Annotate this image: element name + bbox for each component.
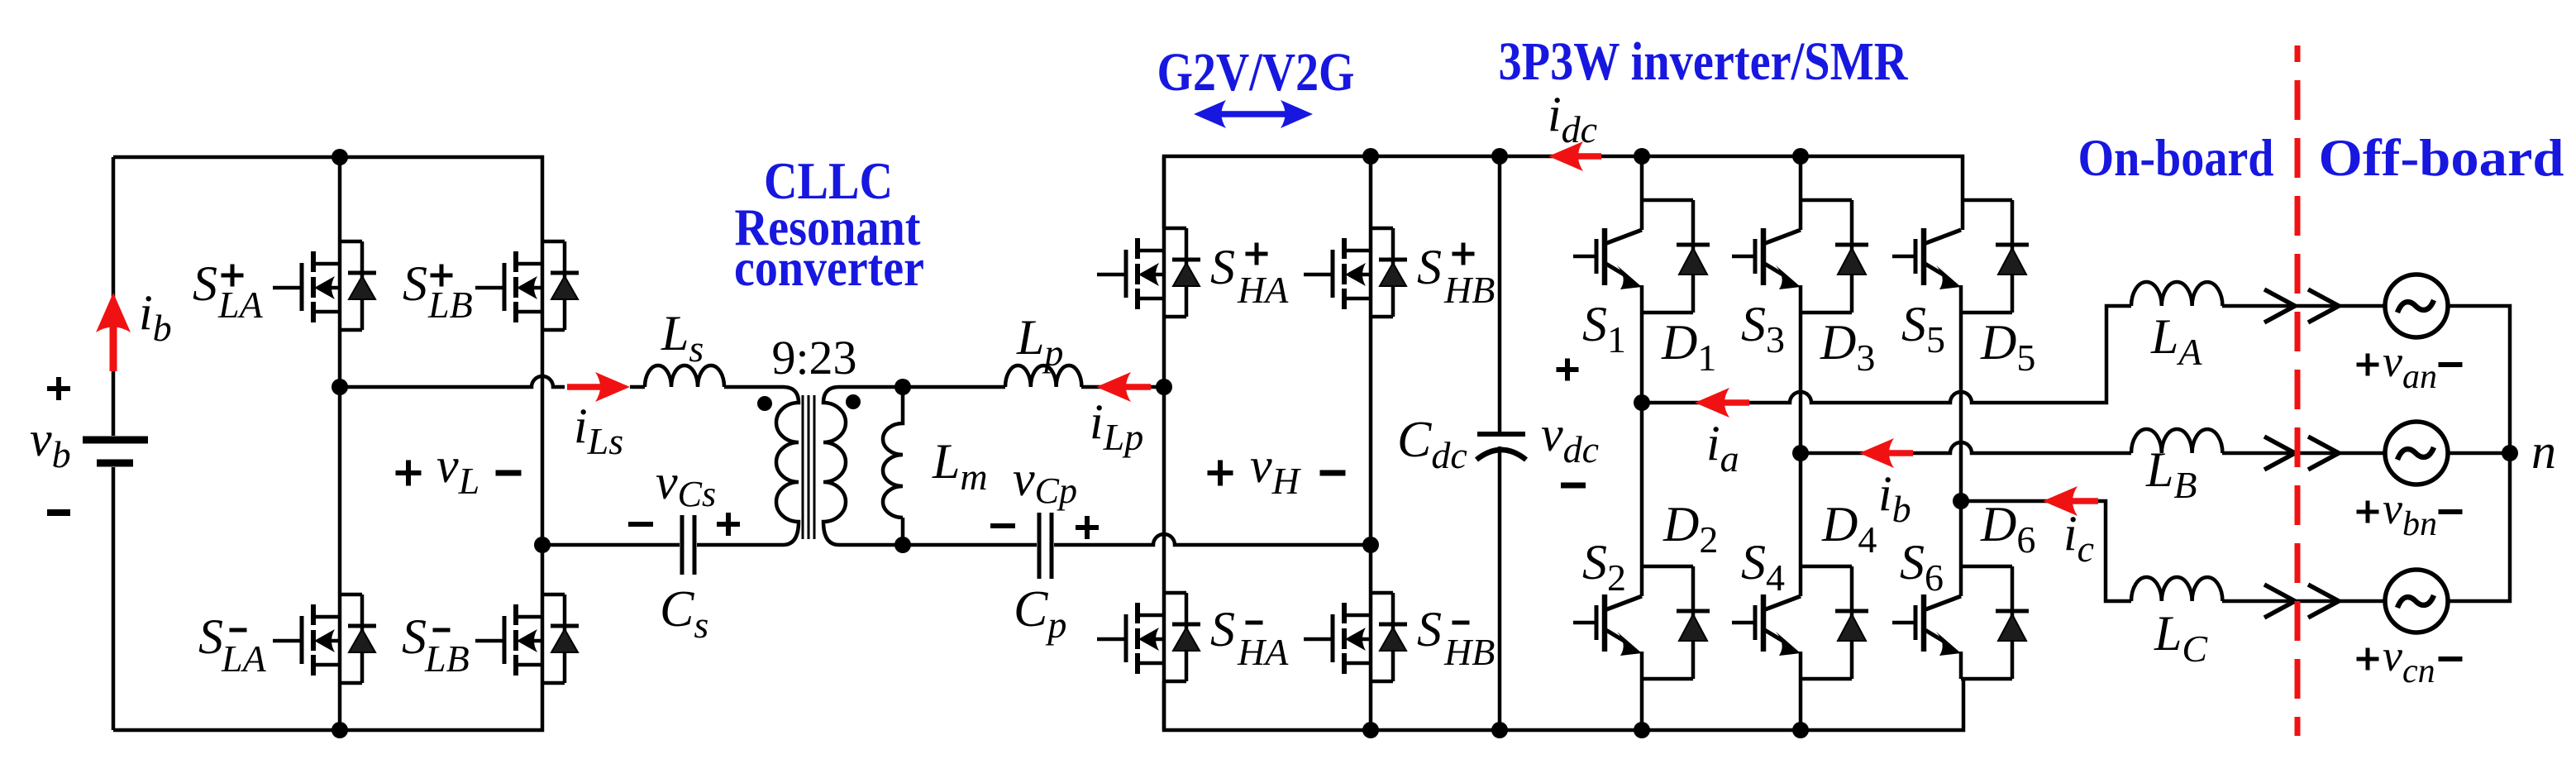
wire secondary bottom [839,543,1037,547]
chevrons phase a [2264,289,2339,322]
label Cp [1014,581,1066,646]
junction node HB mid [1362,537,1379,553]
junction phase a [1634,394,1650,411]
wire neutral [2448,306,2510,601]
current arrow iLp [1096,372,1151,402]
label SHB- [1417,602,1495,673]
label vdc [1541,407,1599,470]
junction inverter leg1 top [1634,148,1650,165]
wire battery branch top [112,157,116,436]
label Cdc [1397,412,1467,476]
battery Vb [83,440,148,463]
transistor S1 [1573,200,1710,313]
label ia [1706,416,1739,480]
transistor S4 [1732,566,1868,679]
wire node B to Cs [542,543,680,547]
label - Cp [990,523,1015,528]
inductor LC [2131,577,2222,601]
current arrow iLs [567,372,630,402]
label Lp [1016,310,1063,374]
junction inverter leg2 top [1792,148,1809,165]
svg-text:n: n [2531,424,2556,479]
boundary dashed line [2295,45,2301,736]
svg-text:3P3W inverter/SMR: 3P3W inverter/SMR [1499,31,1909,92]
label D5 [1980,315,2035,379]
chevrons phase b [2264,437,2339,470]
label Cs [660,581,708,646]
ac source van [2385,275,2448,337]
wire LA to source [2222,304,2385,308]
wire Cs to transformer [697,543,783,547]
label CLLC line2 [735,198,922,256]
label SLB+ [403,256,473,326]
label On-board [2078,128,2274,187]
wire leg A L-bridge [338,157,342,730]
capacitor Cs [682,515,694,575]
junction node HA mid [1156,379,1172,395]
wire phase c [1961,501,2131,601]
junction top rail leg A [332,149,348,165]
label Ls [661,306,704,370]
label ib [139,285,172,349]
label S3 [1741,297,1785,360]
svg-text:Off-board: Off-board [2319,128,2564,187]
label S1 [1582,297,1626,360]
label + Cs [717,513,740,536]
wire Lp to bridge [1081,385,1164,389]
transistor S5 [1892,200,2029,313]
label n [2531,424,2556,479]
wire arrow to Ls [630,385,645,389]
capacitor Cdc [1476,434,1526,460]
junction node B mid [534,537,551,553]
transistor SHB+ [1304,228,1407,317]
svg-text:HA: HA [1237,269,1289,311]
node n [2502,445,2518,461]
svg-text:LB: LB [427,284,473,326]
label G2V/V2G [1157,42,1355,103]
label Lm [932,434,988,498]
wire inverter leg3 segments [1959,285,1963,679]
label D2 [1662,497,1718,561]
svg-text:S: S [1210,602,1235,656]
wire leg HB [1369,156,1373,730]
current arrow ib [96,293,131,371]
junction inverter leg1 bottom [1634,722,1650,738]
wire Cp to HB right leg [1054,534,1371,545]
label iLp [1090,394,1143,458]
label vCp [1013,451,1077,511]
svg-text:9:23: 9:23 [771,331,856,384]
current arrow ic [2043,486,2098,516]
transistor SHA+ [1097,228,1200,317]
wire leg HA [1162,156,1166,730]
svg-text:LA: LA [217,284,264,326]
label + vH - [1208,438,1346,502]
ac source vcn [2385,570,2448,633]
label CLLC line3 [734,238,924,297]
label D4 [1821,497,1877,561]
transistor SLB- [475,594,579,683]
label 3P3W inverter/SMR [1499,31,1909,92]
svg-text:LA: LA [221,637,267,680]
label LB [2145,442,2197,506]
label - battery [47,509,70,516]
svg-text:converter: converter [734,238,924,297]
wire Ls to transformer [724,385,783,389]
transistor SHA- [1097,593,1200,681]
transistor S2 [1573,566,1710,679]
svg-text:HA: HA [1237,631,1289,673]
wire leg B L-bridge lower [541,545,545,682]
label S2 [1582,535,1626,599]
label LA [2150,309,2202,373]
wire bottom rail L-bridge [113,682,542,730]
junction bottom rail leg A [332,722,348,738]
label SHA- [1210,602,1289,673]
label vb [30,412,71,475]
label ib phase [1878,466,1911,530]
wire inverter leg2 segments [1799,156,1803,730]
svg-text:S: S [193,256,217,311]
label 9:23 turns ratio [771,331,856,384]
polarity dot primary [757,396,772,411]
label SHA+ [1210,240,1289,311]
svg-text:S: S [1210,240,1235,294]
label SHB+ [1417,240,1495,311]
svg-text:S: S [403,256,427,311]
svg-text:On-board: On-board [2078,128,2274,187]
wire phase a [1642,306,2131,403]
inductor LB [2131,429,2222,453]
label S5 [1901,297,1945,360]
current arrow ib phase [1859,438,1913,468]
wire Cdc leg top [1498,156,1502,432]
junction HB top [1362,148,1379,165]
capacitor Cp [1039,513,1052,579]
transistor SLA- [273,594,376,683]
transformer secondary winding [823,387,846,545]
label + vbn - [2357,484,2463,543]
junction phase b [1792,445,1809,461]
junction Lm bottom [894,537,911,553]
svg-text:HB: HB [1443,269,1495,311]
label + Cp [1076,516,1099,539]
wire LB to source [2222,451,2385,456]
svg-text:LB: LB [424,637,470,680]
label D6 [1980,497,2035,561]
label + vcn - [2357,631,2463,690]
junction inverter leg2 bottom [1792,722,1809,738]
ac source vbn [2385,422,2448,485]
label vCs [656,455,716,514]
transistor SLA+ [273,241,376,330]
junction HB bottom [1362,722,1379,738]
wire top rail L-bridge [113,157,542,241]
wire bottom rail H-bridge [1164,679,1963,730]
label SLA+ [193,256,264,326]
label iLs [574,399,623,462]
svg-text:HB: HB [1443,631,1495,673]
chevrons phase c [2264,585,2339,618]
transistor SLB+ [475,241,579,330]
transistor S3 [1732,200,1868,313]
label ic [2063,506,2094,570]
label - vdc [1561,483,1586,489]
transistor S6 [1892,566,2029,679]
wire node A to Ls [340,376,565,387]
wire inverter leg1 segments [1640,156,1644,730]
label + battery [47,377,70,400]
svg-text:G2V/V2G: G2V/V2G [1157,42,1355,103]
transformer primary winding [776,387,799,545]
label + van - [2357,337,2463,396]
junction phase c [1953,493,1969,509]
wire battery branch bottom [112,467,116,730]
label CLLC line1 [764,151,893,210]
label + vdc [1557,359,1579,381]
svg-text:S: S [1417,240,1442,294]
wire leg B L-bridge upper [541,241,545,545]
junction Lm top [894,379,911,395]
current arrow idc [1548,141,1601,171]
inductor Lm [883,387,903,545]
junction Cdc top [1491,148,1508,165]
svg-text:S: S [198,609,223,664]
label - Cs [628,522,653,527]
wire LC to source [2222,599,2385,604]
inductor LA [2131,282,2222,306]
svg-text:S: S [1417,602,1442,656]
label idc [1548,87,1597,150]
label D3 [1820,315,1875,379]
wire secondary top [839,385,1005,389]
inductor Ls [645,365,724,387]
junction Cdc bottom [1491,722,1508,738]
wire top rail H-bridge [1164,156,1963,230]
label SLA- [198,609,267,680]
current arrow ia [1695,388,1749,418]
label S4 [1741,535,1785,599]
inductor Lp [1005,365,1081,387]
junction node A mid [332,379,348,395]
label + vL - [396,438,522,502]
label SLB- [402,609,470,680]
transistor SHB- [1304,593,1407,681]
transformer core [803,395,814,539]
bidirectional arrow G2V [1194,100,1313,128]
svg-text:S: S [402,609,427,664]
wire Cdc leg bottom [1498,446,1502,730]
wire phase b [1801,442,2131,453]
label S6 [1900,535,1944,599]
label D1 [1661,315,1716,379]
polarity dot secondary [846,394,861,409]
label Off-board [2319,128,2564,187]
label LC [2154,606,2208,670]
